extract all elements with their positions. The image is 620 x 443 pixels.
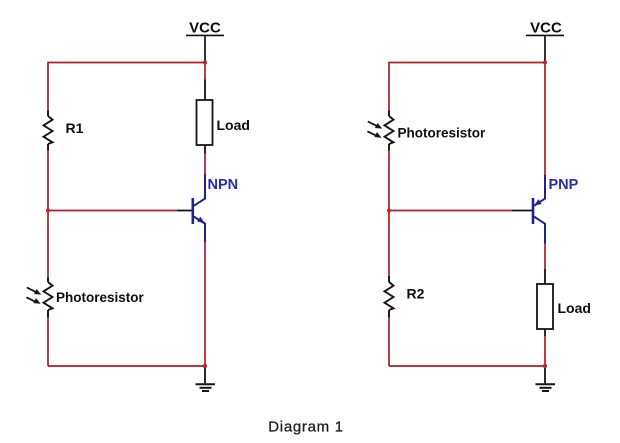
svg-text:PNP: PNP: [549, 177, 579, 193]
svg-text:Load: Load: [558, 300, 591, 316]
svg-text:NPN: NPN: [208, 177, 239, 193]
svg-text:R2: R2: [407, 286, 425, 302]
svg-text:Photoresistor: Photoresistor: [398, 126, 487, 141]
svg-text:VCC: VCC: [189, 20, 221, 37]
svg-text:R1: R1: [66, 120, 84, 136]
svg-text:Photoresistor: Photoresistor: [56, 290, 145, 305]
svg-text:VCC: VCC: [530, 20, 562, 37]
svg-text:Diagram 1: Diagram 1: [268, 419, 344, 436]
svg-text:Load: Load: [217, 117, 250, 133]
